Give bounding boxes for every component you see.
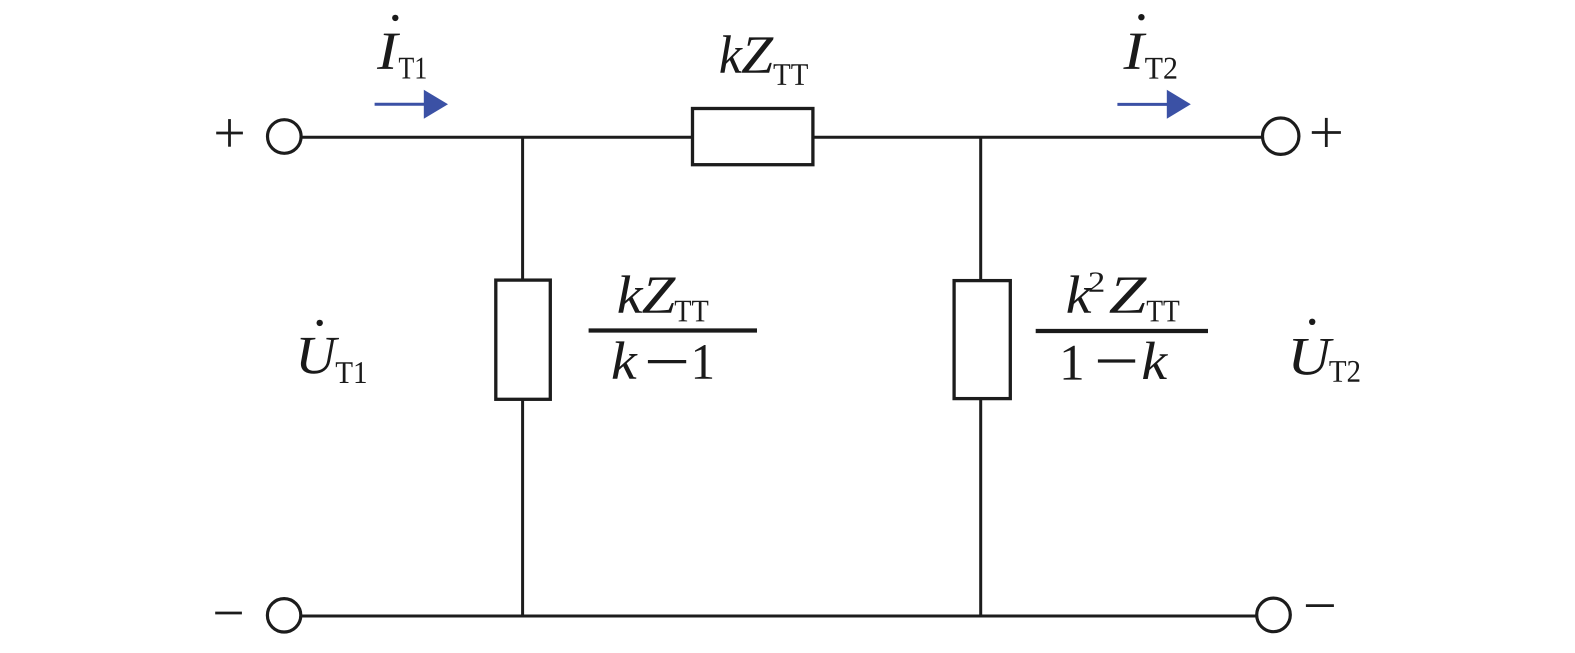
polarity plus sign at top-left port bbox=[216, 119, 243, 147]
impedance kZTT/(k-1) left shunt box bbox=[496, 280, 551, 399]
current arrow IT1 bbox=[375, 90, 448, 119]
wire: left shunt branch lower segment bbox=[521, 399, 524, 616]
impedance k2ZTT/(1-k) right shunt box bbox=[954, 281, 1010, 399]
current arrow IT2 bbox=[1117, 90, 1190, 119]
wire: top-left horizontal from terminal to series box bbox=[301, 136, 694, 139]
value label fraction kZTT over k-1 beside left shunt box bbox=[589, 275, 757, 378]
wire: top-right horizontal from series box to right terminal bbox=[812, 136, 1262, 139]
value label fraction k2ZTT over 1-k beside right shunt box bbox=[1036, 272, 1208, 379]
terminal node: bottom-right port bbox=[1257, 598, 1291, 632]
terminal node: bottom-left port bbox=[267, 599, 300, 632]
polarity plus sign at top-right port bbox=[1312, 118, 1341, 147]
wire: left shunt branch upper segment bbox=[521, 137, 524, 281]
terminal node: top-right port bbox=[1263, 118, 1299, 154]
wire: right shunt branch lower segment bbox=[979, 399, 982, 616]
wire: right shunt branch upper segment bbox=[979, 137, 982, 281]
wire: bottom horizontal rail bbox=[301, 615, 1256, 618]
terminal node: top-left port bbox=[268, 120, 302, 154]
value label kZTT above series box bbox=[720, 35, 808, 85]
polarity minus sign at bottom-left port bbox=[215, 612, 242, 615]
label voltage UT2 with dot accent bbox=[1293, 319, 1359, 382]
label voltage UT1 with dot accent bbox=[300, 320, 365, 383]
label current IT1 with dot accent bbox=[377, 15, 426, 79]
polarity minus sign at bottom-right port bbox=[1306, 604, 1334, 607]
label current IT2 with dot accent bbox=[1123, 14, 1176, 79]
impedance kZTT series box bbox=[693, 109, 813, 165]
